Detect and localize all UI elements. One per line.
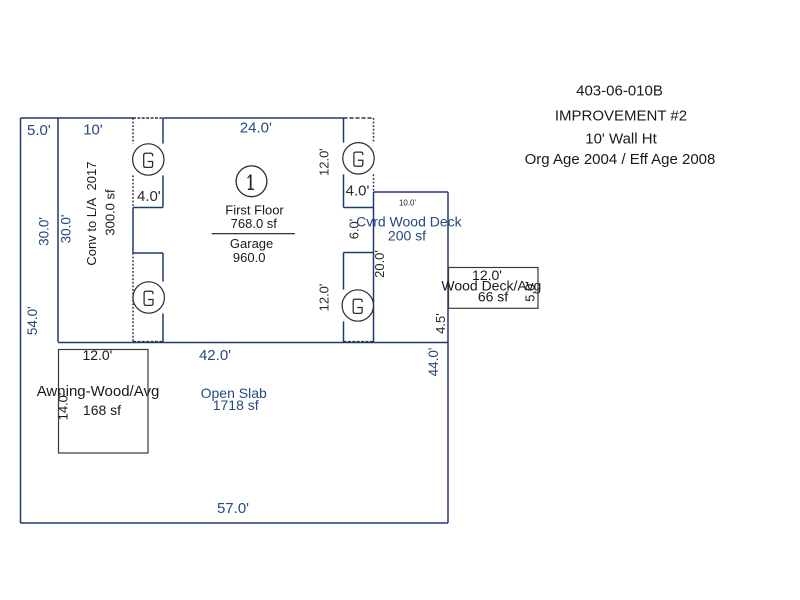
- wood deck box: [449, 268, 539, 309]
- svg-text:30.0': 30.0': [36, 217, 51, 246]
- wall: main bottom edge continuous: [58, 342, 448, 344]
- G letter bottom-left: [144, 291, 153, 305]
- svg-text:5.0': 5.0': [522, 281, 537, 302]
- svg-text:42.0': 42.0': [199, 347, 231, 364]
- svg-text:IMPROVEMENT #2: IMPROVEMENT #2: [555, 107, 687, 124]
- svg-text:Garage: Garage: [230, 236, 273, 251]
- wall: bottom right opening dashes overlay: [344, 341, 374, 343]
- G letter top-left: [144, 153, 153, 167]
- story circle 1: [236, 166, 267, 197]
- deck: top edge: [374, 191, 449, 193]
- garage door circle G bottom-left: [133, 282, 164, 313]
- wall: solid vertical x=163 upper above circle: [162, 118, 164, 144]
- wall: dotted vertical x=373.5 right opening below circle: [373, 174, 375, 192]
- garage door circle G top-left: [133, 144, 164, 175]
- svg-text:54.0': 54.0': [25, 306, 40, 335]
- wall: solid vertical x=163 lower above circle: [162, 253, 164, 282]
- svg-text:168 sf: 168 sf: [83, 402, 121, 418]
- deck: left edge: [373, 192, 375, 342]
- svg-text:10' Wall Ht: 10' Wall Ht: [585, 131, 657, 148]
- wall: bottom left opening dashes overlay: [133, 341, 163, 343]
- garage door circle G top-right: [343, 143, 374, 174]
- wall: outer left vertical: [20, 118, 22, 523]
- svg-text:4.0': 4.0': [137, 188, 161, 205]
- svg-text:14.0': 14.0': [56, 393, 71, 421]
- wall: notch horizontal y=207.5 left: [133, 207, 163, 209]
- svg-text:Org Age 2004 / Eff Age 2008: Org Age 2004 / Eff Age 2008: [525, 151, 716, 168]
- svg-text:24.0': 24.0': [240, 120, 272, 137]
- G letter top-right: [354, 152, 363, 166]
- story number 1: [248, 175, 254, 190]
- G letter bottom-right: [353, 299, 362, 313]
- wall: solid vertical x=343.5 lower below circle: [343, 321, 345, 342]
- wall: solid vertical x=343.5 lower above circle: [343, 253, 345, 290]
- svg-text:12.0': 12.0': [316, 284, 331, 312]
- svg-text:1718 sf: 1718 sf: [213, 397, 259, 413]
- svg-text:4.0': 4.0': [346, 183, 370, 200]
- wall: dotted vertical x=133 upper opening above circle: [132, 118, 134, 144]
- svg-text:300.0 sf: 300.0 sf: [103, 189, 118, 236]
- svg-text:768.0 sf: 768.0 sf: [231, 216, 278, 231]
- wall: top edge solid left portion: [21, 117, 134, 119]
- svg-text:30.0': 30.0': [59, 215, 74, 244]
- wall: notch horizontal y=207.5 right: [344, 207, 374, 209]
- svg-text:57.0': 57.0': [217, 500, 249, 517]
- svg-text:66 sf: 66 sf: [478, 289, 508, 305]
- svg-text:12.0': 12.0': [316, 148, 331, 176]
- wall: dotted vertical x=133 lower opening: [132, 253, 134, 342]
- wall: slab bottom edge: [21, 522, 449, 524]
- wall: notch horizontal y=253 left: [133, 252, 163, 254]
- wall: solid vertical x=163 lower below circle: [162, 313, 164, 342]
- wall: solid vertical x=343.5 upper above circle: [343, 118, 345, 143]
- wall: solid vertical x=343.5 upper below circle: [343, 174, 345, 207]
- wall: top edge dashed garage opening: [133, 117, 163, 119]
- wall: dotted vertical x=373.5 right opening above circle: [373, 118, 375, 143]
- svg-text:Conv to L/A 2017: Conv to L/A 2017: [84, 162, 99, 266]
- awning box: [59, 350, 149, 454]
- wall: solid vertical x=163 upper below circle: [162, 175, 164, 207]
- svg-text:403-06-010B: 403-06-010B: [576, 83, 663, 100]
- svg-text:12.0': 12.0': [82, 347, 112, 363]
- wall: dotted vertical x=133 upper opening below circle: [132, 175, 134, 207]
- svg-text:10.0': 10.0': [399, 199, 417, 208]
- wall: top edge dashed right opening: [344, 117, 374, 119]
- garage door circle G bottom-right: [342, 290, 373, 321]
- wall: solid vertical x=133 middle: [132, 208, 134, 254]
- svg-text:5.0': 5.0': [27, 122, 51, 139]
- divider line between areas: [212, 233, 295, 235]
- svg-text:44.0': 44.0': [426, 348, 441, 377]
- wall: slab right vertical joined with deck right edge: [447, 192, 449, 523]
- svg-text:200 sf: 200 sf: [388, 228, 426, 244]
- svg-text:10': 10': [83, 122, 103, 139]
- svg-text:20.0': 20.0': [372, 250, 387, 278]
- wall: notch horizontal y=252.5 right: [344, 252, 374, 254]
- wall: top edge solid middle portion: [163, 117, 344, 119]
- svg-text:4.5': 4.5': [433, 313, 448, 334]
- svg-text:960.0: 960.0: [233, 250, 266, 265]
- wall: vertical between 5ft strip and Conv area: [57, 118, 59, 342]
